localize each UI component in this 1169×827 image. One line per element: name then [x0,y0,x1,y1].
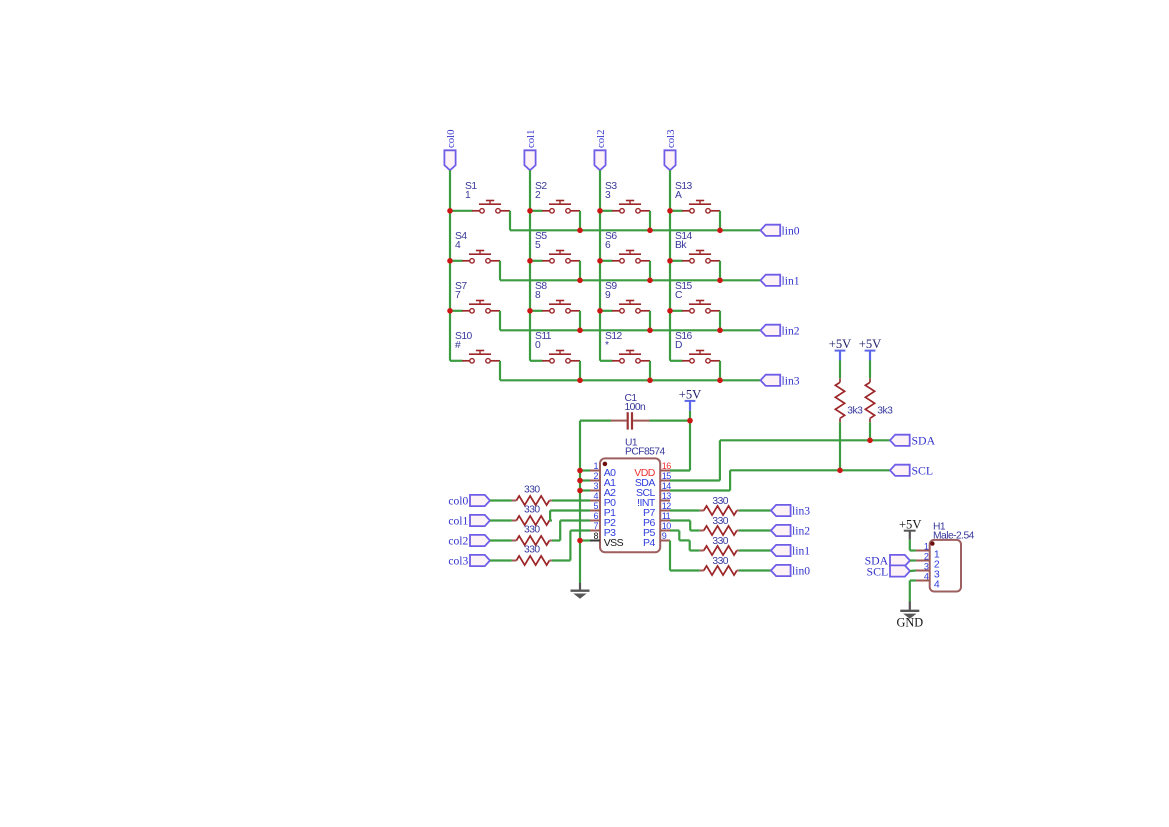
junction GND rail pin 2 [577,478,583,484]
switch S10 [462,360,469,362]
svg-text:7: 7 [594,521,599,531]
wire S5 drop to lin1 bus [579,261,581,281]
resistor 330 (col1) [512,520,517,522]
switch S16 [682,360,689,362]
U1 pin 9 (P4) [660,540,670,542]
H1 pin-1 marker [930,541,934,545]
svg-text:4: 4 [594,491,599,501]
svg-text:+5V: +5V [679,388,702,402]
svg-text:330: 330 [524,545,540,556]
wire S8 drop to lin2 bus [579,311,581,331]
hierarchical port lin1 (row bus) [761,275,781,286]
svg-text:#: # [455,340,461,351]
hierarchical port col1 (left) [470,515,490,526]
wire S14 left stub [670,260,683,262]
wire S4 left stub [450,260,463,262]
svg-text:col0: col0 [445,129,457,148]
svg-text:C: C [675,290,683,301]
wire S2 left stub [530,210,543,212]
svg-text:col2: col2 [595,129,607,148]
junction col3 row 1 [667,258,673,264]
resistor 330 (col2) [512,540,517,542]
svg-text:D: D [675,340,682,351]
junction VDD node [687,418,693,424]
wire SDA from pin15 [670,479,720,481]
U1 pin 1 (A0) [590,470,600,472]
hierarchical port lin0 (right of U1) [771,565,791,576]
wire P5 staircase [670,529,679,531]
U1 pin 8 (VSS) [590,540,600,542]
switch S2 [542,210,549,212]
junction col3 row 0 [667,208,673,214]
svg-text:col2: col2 [448,535,468,548]
hierarchical port col0 (left) [470,495,490,506]
junction col2 row 0 [597,208,603,214]
junction col2 row 2 [597,308,603,314]
junction GND rail pin 3 [577,488,583,494]
wire S15 left stub [670,310,683,312]
svg-text:lin3: lin3 [792,505,810,518]
svg-text:PCF8574: PCF8574 [625,447,665,458]
wire C1 right to +5V junction [650,420,691,422]
ground (H1) [909,602,911,611]
svg-text:Bk: Bk [675,240,687,251]
hierarchical port col1 (top) [524,150,535,170]
U1 pin 5 (P1) [590,510,600,512]
svg-text:11: 11 [662,511,671,521]
svg-text:col0: col0 [448,495,468,508]
wire lin2 bus [500,329,761,331]
resistor 3k3 [839,378,841,382]
svg-text:100n: 100n [625,402,647,413]
wire S6 left stub [600,260,613,262]
wire +5V stem to junction [689,411,691,421]
junction lin0 bus x=720 [717,228,723,234]
svg-text:VSS: VSS [604,537,624,549]
svg-text:1: 1 [924,542,929,552]
resistor 330 (lin3) [700,510,704,512]
svg-text:9: 9 [662,531,667,541]
svg-text:4: 4 [455,240,461,251]
wire rail to pin [580,469,590,471]
wire P7 to resistor [670,509,700,511]
U1 pin-1 marker [603,462,608,467]
wire GND rail vertical (A0-A2,VSS) [579,421,581,583]
junction col2 row 1 [597,258,603,264]
hierarchical port col2 (left) [470,535,490,546]
resistor 3k3 [869,378,871,382]
wire col1 resistor to U1 [550,519,552,521]
U1 pin 4 (P0) [590,500,600,502]
svg-text:3: 3 [924,562,929,572]
wire S13 left stub [670,210,683,212]
svg-text:0: 0 [535,340,541,351]
svg-text:1: 1 [465,190,471,201]
svg-text:Male-2.54: Male-2.54 [933,531,975,542]
svg-text:14: 14 [662,481,671,491]
switch S11 [542,360,549,362]
wire VDD down to pin16 [689,421,691,471]
wire S7 left stub [450,310,463,312]
wire resistor to lin2 port [739,529,771,531]
wire col3 port to resistor [490,559,512,561]
H1 pin 2 [916,560,930,562]
wire S5 left stub [530,260,543,262]
junction col1 row 1 [527,258,533,264]
svg-text:5: 5 [594,501,599,511]
svg-text:2: 2 [594,471,599,481]
hierarchical port col3 (top) [664,150,675,170]
wire +5V to H1 pin1 [909,540,911,551]
wire lin3 bus [500,379,761,381]
wire S1 drop to lin0 bus [509,211,511,231]
wire SDA port to pin2 [910,559,916,561]
svg-text:1: 1 [594,461,599,471]
junction SCL pullup [837,468,843,474]
svg-text:330: 330 [524,525,540,536]
wire rail to pin [580,489,590,491]
wire rail to pin [580,539,590,541]
hierarchical port SDA (H1) [890,555,910,566]
junction GND rail pin 8 [577,538,583,544]
H1 pin 3 [916,570,930,572]
switch S8 [542,310,549,312]
hierarchical port col3 (left) [470,555,490,566]
wire +5V to resistor [869,360,871,378]
svg-text:4: 4 [934,578,940,590]
svg-text:lin0: lin0 [792,565,810,578]
svg-text:6: 6 [594,511,599,521]
svg-text:lin2: lin2 [792,525,810,538]
junction SDA pullup [867,438,873,444]
wire lin1 bus [500,279,761,281]
power +5V (H1, gray) [904,530,916,532]
junction col1 row 0 [527,208,533,214]
svg-text:330: 330 [712,496,728,507]
switch S3 [612,210,619,212]
svg-text:10: 10 [662,521,671,531]
resistor 330 (lin0) [700,570,704,572]
hierarchical port lin3 (right of U1) [771,505,791,516]
wire S11 left stub [530,360,543,362]
svg-text:330: 330 [524,485,540,496]
wire S1 left stub [450,210,473,212]
svg-text:15: 15 [662,471,671,481]
junction col3 row 2 [667,308,673,314]
wire S11 drop to lin3 bus [579,361,581,381]
junction lin2 bus x=720 [717,328,723,334]
wire S2 drop to lin0 bus [579,211,581,231]
switch S14 [682,260,689,262]
wire S8 left stub [530,310,543,312]
U1 pin 7 (P3) [590,530,600,532]
wire SCL from pin14 [670,489,730,491]
svg-text:3: 3 [594,481,599,491]
svg-text:330: 330 [712,536,728,547]
U1 pin 6 (P2) [590,520,600,522]
svg-text:2: 2 [535,190,541,201]
power +5V (pullup x=840) [835,350,846,352]
U1 pin 11 (P6) [660,520,670,522]
svg-text:+5V: +5V [899,517,922,531]
hierarchical port lin3 (row bus) [761,375,781,386]
U1 pin 13 (!INT) [660,500,670,502]
svg-text:12: 12 [662,501,671,511]
wire resistor to lin0 port [739,569,771,571]
power +5V (pullup x=870) [865,350,876,352]
ground (U1 VSS) [579,583,581,591]
hierarchical port SCL [890,465,910,476]
wire S15 drop to lin2 bus [719,311,721,331]
svg-text:3k3: 3k3 [877,405,893,416]
power +5V (VDD) [685,400,696,402]
svg-text:9: 9 [605,290,611,301]
wire S16 drop to lin3 bus [719,361,721,381]
switch S7 [462,310,469,312]
junction lin3 bus x=720 [717,378,723,384]
wire S10 drop to lin3 bus [499,361,501,381]
wire col3 vertical [669,170,671,360]
U1 pin 12 (P7) [660,510,670,512]
wire S16 left stub [670,360,683,362]
wire rail to pin [580,479,590,481]
svg-text:16: 16 [662,461,671,471]
wire S9 left stub [600,310,613,312]
wire col3 resistor to U1 [552,559,571,561]
junction lin2 bus x=580 [577,328,583,334]
switch S13 [682,210,689,212]
junction lin0 bus x=650 [647,228,653,234]
wire resistor down [839,422,841,470]
junction lin1 bus x=720 [717,278,723,284]
U1 pin 10 (P5) [660,530,670,532]
wire resistor down [869,422,871,440]
hierarchical port lin2 (right of U1) [771,525,791,536]
junction lin1 bus x=580 [577,278,583,284]
wire S4 drop to lin1 bus [499,261,501,281]
switch S6 [612,260,619,262]
svg-text:A: A [675,190,682,201]
svg-text:SDA: SDA [912,434,936,448]
svg-text:*: * [605,340,609,351]
resistor 330 (col3) [512,560,517,562]
svg-text:col1: col1 [525,129,537,148]
hierarchical port lin0 (row bus) [761,225,781,236]
svg-text:330: 330 [712,556,728,567]
U1 pin 2 (A1) [590,480,600,482]
hierarchical port lin2 (row bus) [761,325,781,336]
hierarchical port lin1 (right of U1) [771,545,791,556]
wire col0 resistor to U1 [552,499,590,501]
U1 pin 14 (SCL) [660,490,670,492]
svg-text:lin0: lin0 [782,224,800,237]
svg-text:6: 6 [605,240,611,251]
wire S10 left stub [450,360,463,362]
wire P4 jog [669,541,671,571]
U1 pin 15 (SDA) [660,480,670,482]
resistor 330 (col0) [512,500,517,502]
wire SCL port to pin3 [910,569,916,572]
H1 pin 1 [916,550,930,552]
junction col1 row 2 [527,308,533,314]
wire P6 jog [670,519,690,521]
svg-text:+5V: +5V [829,337,852,351]
wire resistor to lin3 port [739,509,771,511]
H1 pin 4 [916,580,930,582]
wire S3 left stub [600,210,613,212]
svg-text:4: 4 [924,572,929,582]
svg-text:P4: P4 [643,537,655,549]
svg-text:5: 5 [535,240,541,251]
wire col1 port to resistor [490,519,512,521]
wire S13 drop to lin0 bus [719,211,721,231]
svg-text:col1: col1 [448,515,468,528]
svg-text:SCL: SCL [867,564,889,578]
svg-text:330: 330 [712,516,728,527]
svg-text:3: 3 [605,190,611,201]
wire S7 drop to lin2 bus [499,311,501,331]
svg-text:8: 8 [594,531,599,541]
U1 pin 16 (VDD) [660,470,670,472]
svg-text:col3: col3 [665,129,677,148]
svg-text:+5V: +5V [859,337,882,351]
wire S12 drop to lin3 bus [649,361,651,381]
svg-text:lin1: lin1 [792,545,810,558]
hierarchical port col0 (top) [444,150,455,170]
capacitor C1 [611,420,627,422]
junction col0 row 1 [447,258,453,264]
U1 pin 3 (A2) [590,490,600,492]
junction lin3 bus x=650 [647,378,653,384]
svg-text:3k3: 3k3 [847,405,863,416]
svg-text:lin3: lin3 [782,374,800,387]
wire S3 drop to lin0 bus [649,211,651,231]
svg-text:330: 330 [524,505,540,516]
junction lin1 bus x=650 [647,278,653,284]
wire S12 left stub [600,360,613,362]
svg-text:2: 2 [924,552,929,562]
svg-text:13: 13 [662,491,671,501]
wire col2 resistor to U1 [552,539,560,541]
hierarchical port SDA [890,435,910,446]
switch S4 [462,260,469,262]
switch S12 [612,360,619,362]
junction lin0 bus x=580 [577,228,583,234]
switch S1 [472,210,479,212]
wire C1 left to GND rail corner [580,420,611,422]
svg-text:7: 7 [455,290,461,301]
switch S9 [612,310,619,312]
wire col0 port to resistor [490,499,512,501]
wire lin0 bus [510,229,761,231]
wire col1 vertical [529,170,531,360]
resistor 330 (lin2) [700,530,704,532]
wire col2 vertical [599,170,601,360]
wire pin4 to GND [910,579,916,581]
svg-text:col3: col3 [448,555,468,568]
junction lin2 bus x=650 [647,328,653,334]
junction GND rail pin 1 [577,468,583,474]
junction col0 row 0 [447,208,453,214]
connector H1 body [930,540,961,592]
wire +5V to resistor [839,360,841,378]
switch S5 [542,260,549,262]
svg-text:SCL: SCL [912,464,934,478]
wire S14 drop to lin1 bus [719,261,721,281]
svg-text:lin1: lin1 [782,274,800,287]
resistor 330 (lin1) [700,550,704,552]
junction lin3 bus x=580 [577,378,583,384]
switch S15 [682,310,689,312]
hierarchical port col2 (top) [594,150,605,170]
wire S9 drop to lin2 bus [649,311,651,331]
wire col0 vertical [449,170,451,360]
wire resistor to lin1 port [739,549,771,551]
wire S6 drop to lin1 bus [649,261,651,281]
op-amp U1 PCF8574 body [600,458,660,552]
hierarchical port SCL (H1) [890,565,910,576]
svg-text:lin2: lin2 [782,324,800,337]
wire col2 port to resistor [490,539,512,541]
junction col0 row 2 [447,308,453,314]
svg-text:GND: GND [896,616,923,630]
svg-text:8: 8 [535,290,541,301]
